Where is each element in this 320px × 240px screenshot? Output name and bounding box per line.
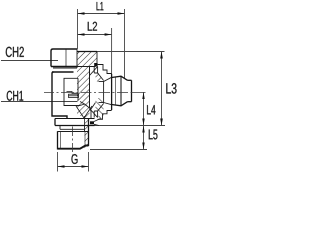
hatch cone upper <box>96 73 104 82</box>
washer section marks <box>94 119 101 126</box>
hatch band boundary <box>84 116 86 126</box>
dimension L3 <box>95 52 166 126</box>
dimension L1 <box>78 9 125 79</box>
funnel diagonal <box>90 103 96 111</box>
port tube end face <box>103 82 105 103</box>
nut <box>112 74 132 110</box>
part: inner cavity <box>64 78 80 105</box>
centerline horizontal (port axis) <box>44 92 146 94</box>
seat blob lower <box>90 121 94 124</box>
dimension G <box>58 152 89 172</box>
hatch stud band <box>85 119 89 150</box>
stud neck <box>58 126 89 132</box>
part: top sectioned edge <box>77 51 97 53</box>
part: clip detail <box>67 92 79 98</box>
washer <box>55 119 95 126</box>
port lower wall steps <box>90 103 112 120</box>
hatch top block and body column <box>77 52 97 119</box>
label CH1 <box>7 91 23 101</box>
part: bore column <box>89 67 91 108</box>
hatch cone lower <box>96 98 104 119</box>
stud thread <box>58 119 89 150</box>
label CH2 <box>6 47 24 57</box>
centerline vertical (stud axis) <box>72 127 74 157</box>
cone flare to nut <box>104 77 112 104</box>
dimension L4 <box>143 92 145 126</box>
dimension L5 <box>90 126 147 150</box>
dimension L2 <box>78 28 112 74</box>
port upper wall steps <box>90 65 112 82</box>
funnel V lattice <box>76 106 92 118</box>
part: bolt head CH2 hex <box>51 49 77 67</box>
seat blob upper <box>94 63 97 67</box>
part: body outline <box>52 72 74 119</box>
part: cone into bore <box>80 102 90 109</box>
